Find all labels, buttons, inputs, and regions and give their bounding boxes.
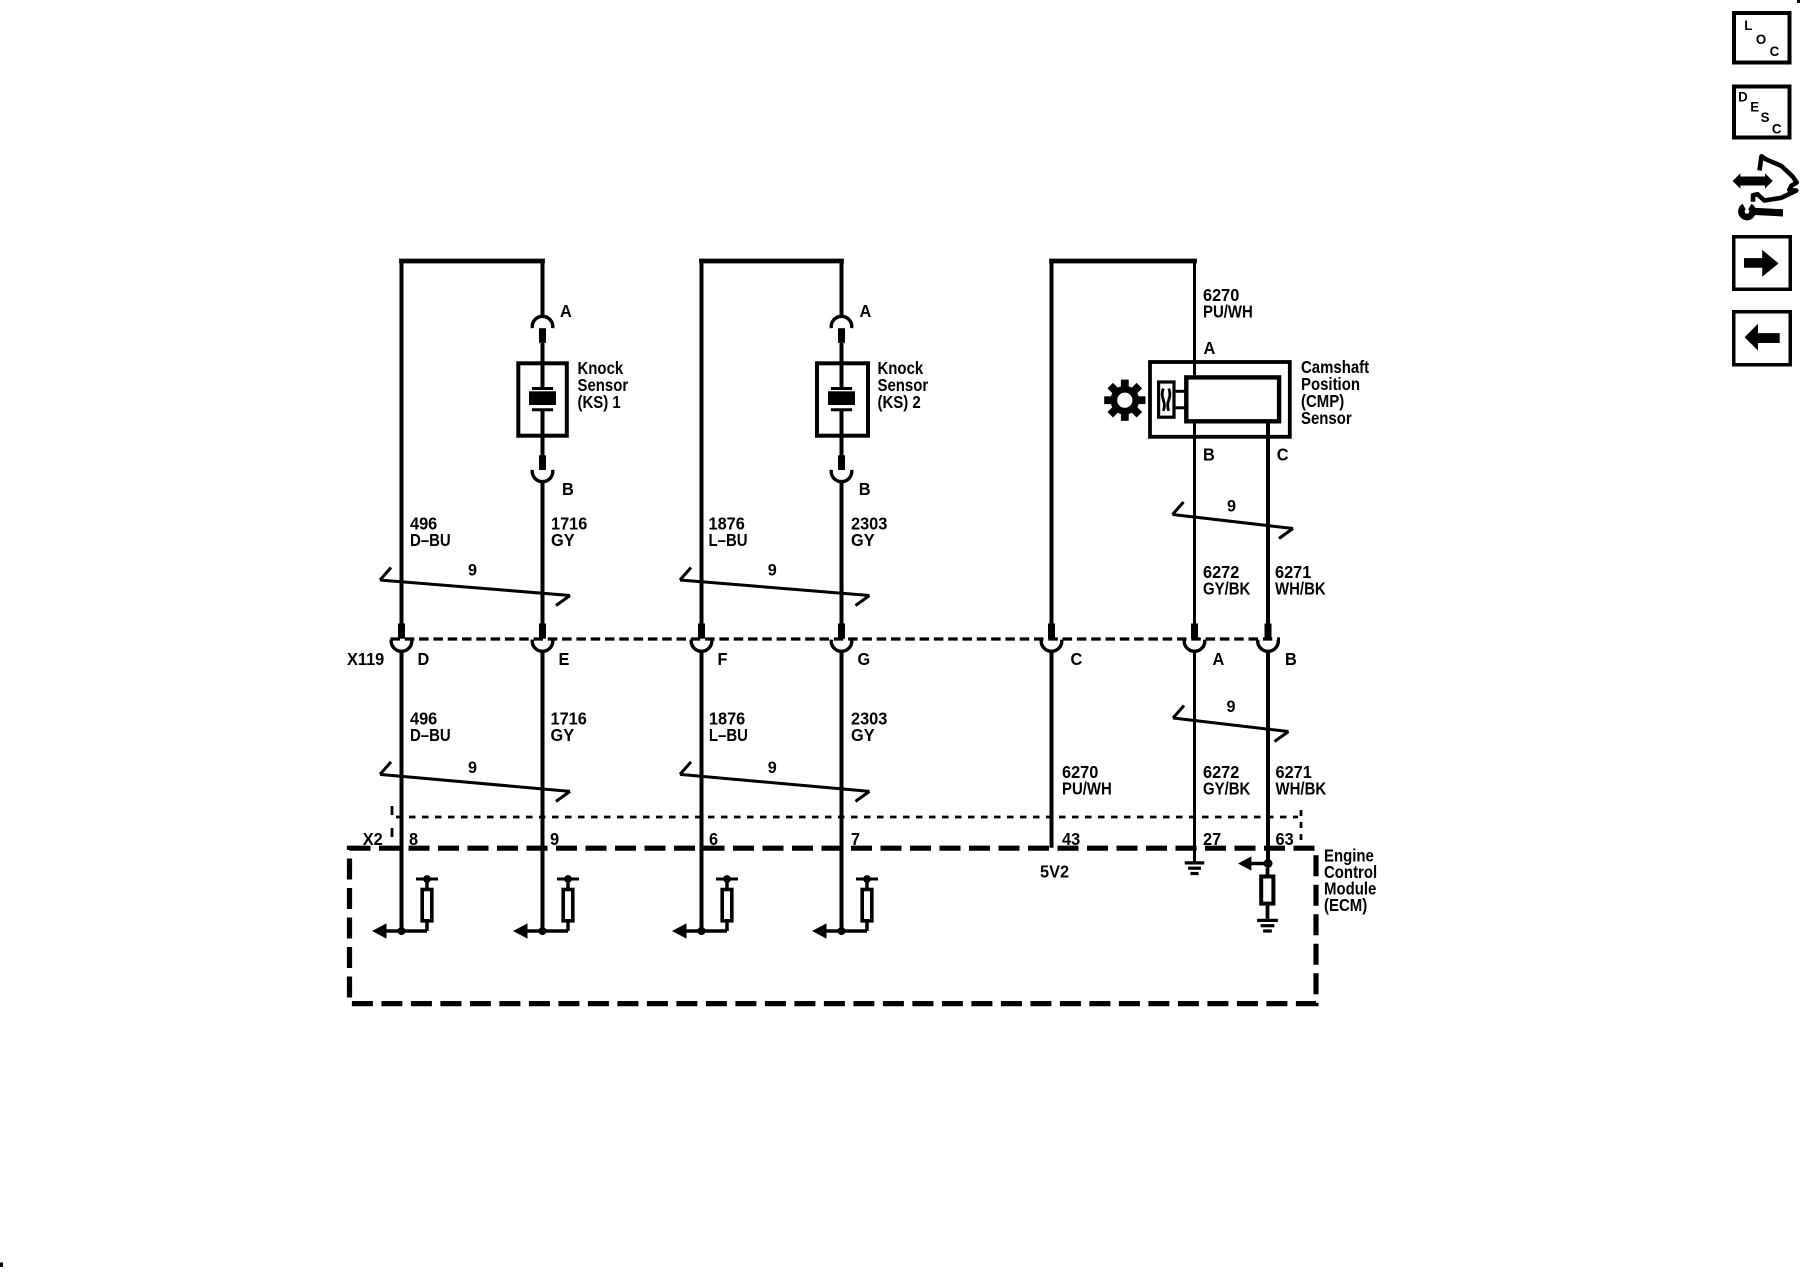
svg-text:GY: GY	[851, 531, 875, 550]
twisted pair marker 9 (KS1 lower)	[380, 758, 570, 802]
connector X119 dashed line	[391, 637, 1281, 640]
label 1876 L-BU lower	[709, 709, 748, 745]
svg-text:9: 9	[1227, 496, 1236, 515]
connector X119 terminal B	[1258, 624, 1297, 670]
svg-text:WH/BK: WH/BK	[1276, 780, 1327, 799]
svg-text:GY: GY	[551, 531, 575, 550]
knock sensor KS2 element	[828, 343, 855, 456]
icon box DESC	[1734, 87, 1790, 138]
knock sensor KS1 element	[529, 343, 556, 456]
svg-text:C: C	[1277, 445, 1289, 464]
connector X119 terminal E	[532, 624, 569, 670]
svg-text:C: C	[1772, 121, 1782, 136]
label 6271 WH/BK upper	[1275, 563, 1326, 599]
label 6272 GY/BK upper	[1203, 563, 1251, 599]
svg-text:C: C	[1071, 650, 1083, 669]
svg-text:F: F	[718, 650, 728, 669]
label pin B (CMP)	[1203, 445, 1215, 464]
svg-text:A: A	[560, 302, 572, 321]
icon box next (right arrow)	[1734, 237, 1791, 290]
corner mark top-right	[1797, 0, 1800, 3]
svg-text:A: A	[1204, 339, 1216, 358]
svg-text:D–BU: D–BU	[410, 726, 451, 745]
svg-text:B: B	[1285, 650, 1297, 669]
connector X119 terminal A	[1184, 624, 1224, 670]
camshaft position sensor CMP outer box	[1150, 362, 1290, 437]
label X2 pin 43	[1062, 830, 1080, 849]
label 6272 GY/BK lower	[1203, 763, 1251, 799]
label 6270 PU/WH upper	[1203, 286, 1253, 322]
svg-text:O: O	[1756, 32, 1767, 47]
CMP sensor element	[1159, 382, 1185, 417]
wire 6271 WH/BK upper (CMP C to X119 B)	[1266, 422, 1270, 624]
svg-text:E: E	[1750, 99, 1759, 114]
twisted pair marker 9 (CMP lower)	[1173, 697, 1289, 742]
twisted pair marker 9 (KS2 upper)	[680, 560, 870, 605]
wire 1876 L-BU lower (X119 F to X2 6)	[700, 652, 704, 931]
resistor / arrow network at pin 6	[672, 875, 738, 939]
label 1716 GY lower	[551, 709, 587, 745]
svg-text:L: L	[1744, 18, 1752, 33]
svg-text:9: 9	[468, 560, 477, 579]
label 1716 GY upper	[551, 514, 587, 550]
svg-text:GY: GY	[551, 726, 575, 745]
connector X2 left end bracket	[391, 806, 394, 841]
svg-text:(KS) 1: (KS) 1	[578, 393, 621, 412]
svg-text:B: B	[1203, 445, 1215, 464]
label 496 D-BU upper	[410, 514, 451, 550]
ground at pin 63	[1257, 920, 1278, 931]
knock sensor KS1 box	[518, 363, 567, 435]
svg-text:D: D	[1738, 89, 1748, 104]
twisted pair marker 9 (KS2 lower)	[680, 758, 870, 802]
wire 6270 PU/WH lower (X119 C to X2 43)	[1050, 652, 1054, 848]
arrow at pin 63	[1238, 856, 1273, 870]
label 2303 GY lower	[851, 709, 887, 745]
svg-text:A: A	[1213, 650, 1225, 669]
label 496 D-BU lower	[410, 709, 451, 745]
svg-text:9: 9	[768, 758, 777, 777]
inline connector B (KS2)	[831, 455, 870, 499]
connector X2 dotted line	[396, 816, 1298, 819]
svg-text:9: 9	[1227, 697, 1236, 716]
label 6270 PU/WH lower	[1062, 763, 1112, 799]
wire 1876 L-BU upper / jumper from KS2 pin A to X119 F	[699, 259, 844, 624]
label X2	[363, 830, 383, 849]
icon box LOC	[1734, 13, 1790, 63]
svg-text:S: S	[1761, 110, 1770, 125]
svg-text:Sensor: Sensor	[1301, 409, 1352, 428]
icon box back (left arrow)	[1734, 312, 1791, 365]
wire 1716 GY upper (KS1 B to X119 E)	[541, 482, 545, 624]
label X2 pin 9	[550, 830, 559, 849]
label X2 pin 8	[409, 830, 418, 849]
label Engine Control Module (ECM)	[1324, 847, 1377, 916]
label Knock Sensor (KS) 1	[578, 359, 629, 412]
resistor / arrow network at pin 9	[513, 875, 579, 939]
svg-text:GY/BK: GY/BK	[1203, 580, 1251, 599]
label 5V2	[1040, 862, 1069, 881]
label X2 pin 63	[1276, 830, 1294, 849]
wire 6272 GY/BK upper (CMP B to X119 A)	[1193, 422, 1196, 624]
svg-text:9: 9	[768, 560, 777, 579]
svg-text:L–BU: L–BU	[709, 531, 748, 550]
svg-text:D–BU: D–BU	[410, 531, 451, 550]
svg-text:X119: X119	[347, 650, 384, 669]
wire 496 D-BU upper / jumper from KS1 pin A to X119 D	[399, 259, 545, 624]
svg-text:E: E	[559, 650, 570, 669]
connector X119 terminal C	[1041, 624, 1082, 670]
svg-text:GY: GY	[851, 726, 875, 745]
connector X119 terminal G	[831, 624, 870, 670]
inline connector B (KS1)	[532, 455, 574, 499]
twisted pair marker 9 (CMP upper)	[1173, 496, 1294, 538]
twisted pair marker 9 (KS1 upper)	[380, 560, 570, 605]
wire 6272 GY/BK lower (X119 A to X2 27 / ground)	[1193, 652, 1196, 862]
wire 6271 WH/BK lower (X119 B to X2 63)	[1266, 652, 1270, 864]
svg-text:C: C	[1770, 44, 1780, 59]
svg-text:PU/WH: PU/WH	[1062, 780, 1112, 799]
ECM dashed box	[350, 848, 1317, 1003]
ground at pin 27	[1185, 863, 1205, 874]
gear icon (camshaft)	[1104, 380, 1145, 421]
svg-text:(ECM): (ECM)	[1324, 896, 1367, 915]
wire 1716 GY lower (X119 E to X2 9)	[541, 652, 545, 931]
svg-text:D: D	[418, 650, 430, 669]
svg-text:9: 9	[468, 758, 477, 777]
inline connector A (KS1)	[532, 302, 572, 343]
resistor / arrow network at pin 7	[812, 875, 878, 939]
svg-text:A: A	[860, 302, 872, 321]
label 6271 WH/BK lower	[1276, 763, 1327, 799]
svg-text:L–BU: L–BU	[709, 726, 748, 745]
connector X119 terminal D	[391, 624, 429, 670]
inline connector A (KS2)	[831, 302, 871, 343]
label X2 pin 27	[1203, 830, 1221, 849]
label X2 pin 7	[851, 830, 860, 849]
icon jump (double arrow and wrench)	[1733, 156, 1797, 217]
wire 2303 GY lower (X119 G to X2 7)	[840, 652, 844, 931]
CMP sensor inner body	[1186, 377, 1279, 421]
resistor / arrow network at pin 8	[372, 875, 438, 939]
resistor at pin 63	[1261, 868, 1273, 919]
label Knock Sensor (KS) 2	[878, 359, 929, 412]
label pin A (CMP)	[1204, 339, 1216, 358]
label 2303 GY upper	[851, 514, 887, 550]
knock sensor KS2 box	[817, 363, 868, 435]
svg-text:B: B	[859, 480, 871, 499]
wire 496 D-BU lower (X119 D to X2 8)	[400, 652, 404, 931]
label X2 pin 6	[709, 830, 718, 849]
svg-text:WH/BK: WH/BK	[1275, 580, 1326, 599]
svg-text:PU/WH: PU/WH	[1203, 303, 1253, 322]
svg-text:(KS) 2: (KS) 2	[878, 393, 921, 412]
connector X119 terminal F	[691, 624, 727, 670]
svg-text:G: G	[858, 650, 871, 669]
corner mark bottom-left	[0, 1263, 3, 1268]
svg-text:B: B	[562, 480, 574, 499]
label X119	[347, 650, 384, 669]
connector X2 right end bracket	[1300, 810, 1303, 846]
label 1876 L-BU upper	[709, 514, 748, 550]
svg-text:5V2: 5V2	[1040, 862, 1069, 881]
svg-text:GY/BK: GY/BK	[1203, 780, 1251, 799]
wire 6270 PU/WH upper / jumper from X119 C to CMP pin A	[1049, 259, 1197, 624]
label pin C (CMP)	[1277, 445, 1289, 464]
label Camshaft Position (CMP) Sensor	[1301, 358, 1370, 428]
wire 2303 GY upper (KS2 B to X119 G)	[840, 482, 844, 624]
